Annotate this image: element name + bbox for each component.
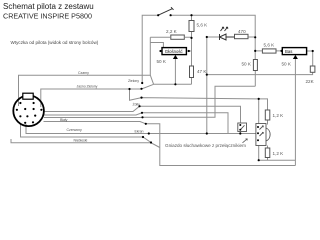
headphone jack J1	[256, 124, 270, 146]
wire: jack bottom run	[259, 146, 296, 161]
wire: 5,6K-2 leads	[255, 50, 282, 52]
plug pins	[16, 102, 43, 124]
wire: branch down from jasno zielony to 1,2K feed	[130, 89, 268, 110]
svg-text:Gniazdo słuchawkowe z przełącz: Gniazdo słuchawkowe z przełącznikiem	[165, 143, 246, 148]
wire: 2,2K right lead	[150, 36, 191, 38]
wire: 1,2K no1 bottom lead	[267, 120, 269, 125]
svg-text:1,2 K: 1,2 K	[273, 113, 285, 118]
svg-text:5,6 K: 5,6 K	[197, 22, 209, 27]
wire: switch west lead + Zielony riser	[142, 15, 158, 83]
svg-text:Niebieski: Niebieski	[74, 139, 88, 143]
wire: east node run y=84.3 to 47K corner	[154, 83, 192, 85]
wire: jack column from wire y=99 down	[258, 99, 260, 124]
svg-text:Czarny: Czarny	[78, 71, 89, 75]
wire: 1,2K no2 leads	[267, 146, 269, 161]
jack switch box SW2	[238, 123, 247, 132]
wire: 2,2K left lead L-path down	[150, 37, 163, 47]
wire bialy: plug row 4, diagonal down, east, down to bottom rail	[44, 122, 296, 166]
svg-text:Żółty: Żółty	[133, 102, 141, 107]
wire: plug row 3 east run to 50K return	[44, 86, 255, 117]
wire: top rail from switch to right corner	[171, 15, 256, 37]
resistor 47K vertical R6	[190, 66, 194, 78]
resistor 22K vertical R7	[310, 66, 315, 72]
svg-text:22K: 22K	[306, 79, 315, 84]
wire: jack switch box bottom lead	[239, 132, 241, 134]
resistor 50K vertical R5	[253, 60, 257, 71]
svg-text:Biały: Biały	[60, 118, 68, 122]
switch S1 lever	[158, 7, 173, 15]
svg-text:47 K: 47 K	[197, 69, 207, 74]
svg-text:470: 470	[238, 29, 246, 34]
svg-text:50 K: 50 K	[157, 59, 167, 64]
wire jasno zielony: plug riser, run east, dot join diagonal	[41, 84, 154, 107]
LED D1	[220, 27, 235, 40]
svg-text:Ekran: Ekran	[135, 130, 144, 134]
wire czarny: plug pin riser and run east	[19, 75, 151, 106]
wire: pot gosnosc right column down through 47K	[186, 15, 191, 84]
wire: glosnosc wiper stem	[174, 59, 176, 85]
svg-text:Jasno Zielony: Jasno Zielony	[77, 85, 98, 89]
potentiometer Bas P2	[282, 48, 306, 55]
wire: vertical from L down to czarny join and diagonal to node	[150, 43, 153, 85]
wire: LED west lead	[207, 36, 220, 38]
wire: 470 east lead and mid column down	[248, 37, 255, 86]
wire: plug row 2, diagonal up, east run, down to czerwony rail	[44, 113, 228, 134]
svg-text:Schemat pilota z zestawu: Schemat pilota z zestawu	[3, 2, 94, 11]
wire: LED left junction vertical down to 22K return rail	[207, 37, 313, 134]
jack caption arrow	[243, 139, 248, 143]
resistor 5,6K vertical R1	[189, 21, 194, 32]
potentiometer Glosnosc P1	[162, 48, 186, 55]
resistor 5,6K horizontal R4	[262, 49, 276, 53]
svg-text:5,6 K: 5,6 K	[264, 42, 276, 47]
plug connector body	[13, 96, 44, 127]
svg-text:1,2 K: 1,2 K	[273, 151, 285, 156]
resistor 1,2K vertical R8	[265, 110, 270, 120]
svg-text:Głośność: Głośność	[165, 49, 184, 54]
svg-text:Czerwony: Czerwony	[67, 128, 82, 132]
wire ekran: plug bottom riser, run east, diagonal merge	[21, 124, 152, 143]
svg-text:CREATIVE INSPIRE P5800: CREATIVE INSPIRE P5800	[3, 12, 92, 21]
svg-text:50 K: 50 K	[282, 62, 292, 67]
resistor 470 R3	[235, 34, 249, 38]
wire zolty: plug run, diagonal up, east run, down to jack switch box	[44, 106, 241, 123]
resistor 1,2K vertical R9	[265, 148, 270, 158]
svg-text:Bas: Bas	[285, 49, 292, 54]
wire czerwony: plug bottom riser and run east to jack	[26, 124, 256, 134]
wiper arrow P1	[173, 55, 178, 59]
svg-text:Wtyczka od pilota (widok od s: Wtyczka od pilota (widok od strony bolcó…	[11, 40, 99, 45]
svg-text:50 K: 50 K	[242, 62, 252, 67]
wiper arrow P2	[293, 55, 298, 59]
resistor 2,2K R2	[171, 35, 185, 39]
wire: bas right stub and 22K column	[307, 51, 313, 66]
svg-text:Zielony: Zielony	[128, 79, 139, 83]
plug notch	[23, 93, 33, 99]
wire: bas wiper stem down to bottom rail	[294, 59, 296, 166]
wire niebieski: west stub, run east, diagonal to bottom riser	[11, 139, 160, 148]
svg-text:2,2 K: 2,2 K	[166, 29, 178, 34]
wire labels	[60, 71, 143, 143]
